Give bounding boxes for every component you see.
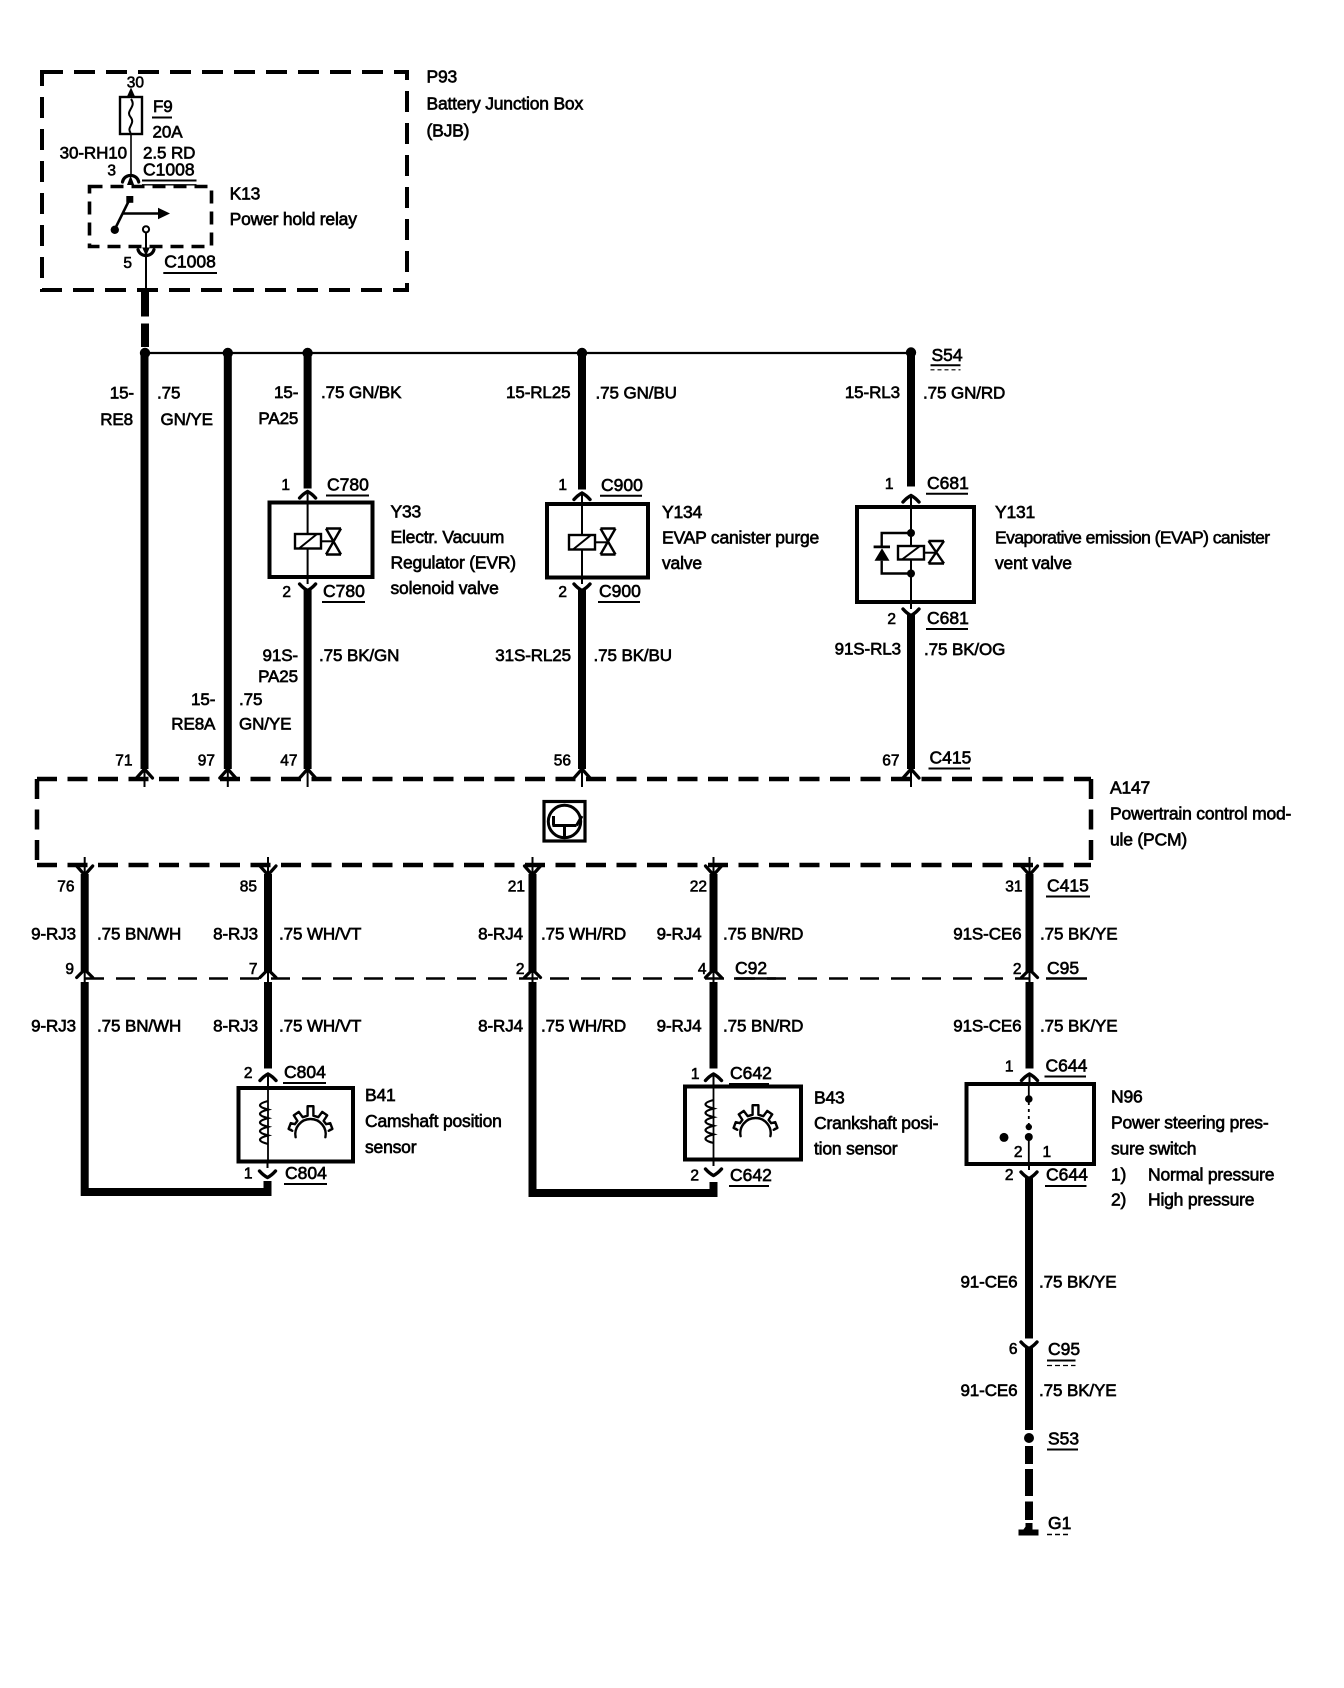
sensor B41 internal wire — [267, 1090, 269, 1160]
wire 9-RJ4 .75 BN/RD — [710, 874, 718, 971]
svg-text:6: 6 — [1009, 1341, 1018, 1358]
svg-text:21: 21 — [508, 879, 525, 896]
svg-text:B43: B43 — [814, 1088, 845, 1108]
svg-text:.75 BN/WH: .75 BN/WH — [97, 925, 181, 944]
svg-text:15-RL25: 15-RL25 — [506, 383, 571, 402]
svg-text:C780: C780 — [327, 475, 369, 495]
svg-text:5: 5 — [123, 255, 132, 272]
svg-text:K13: K13 — [230, 184, 261, 204]
svg-text:RE8A: RE8A — [171, 715, 216, 734]
junction node — [577, 348, 587, 358]
svg-text:15-RL3: 15-RL3 — [845, 383, 900, 402]
battery junction box P93 — [42, 72, 407, 290]
wire S53 to ground — [1025, 1446, 1033, 1464]
svg-text:EVAP canister purge: EVAP canister purge — [662, 528, 819, 548]
svg-text:Power hold relay: Power hold relay — [230, 209, 358, 229]
svg-text:.75 BK/YE: .75 BK/YE — [1039, 1381, 1117, 1400]
svg-text:Y33: Y33 — [391, 502, 422, 522]
wire fuse to relay — [130, 134, 132, 176]
svg-text:15-: 15- — [191, 690, 215, 709]
svg-text:valve: valve — [662, 553, 702, 573]
svg-text:C92: C92 — [735, 958, 767, 978]
wire 91S-RL3 .75 BK/OG — [907, 615, 915, 770]
svg-text:Powertrain control mod-: Powertrain control mod- — [1110, 804, 1292, 824]
svg-text:2: 2 — [282, 584, 291, 601]
svg-text:.75 GN/RD: .75 GN/RD — [923, 384, 1005, 403]
wire 9-RJ3 to B41 — [85, 982, 268, 1192]
svg-text:N96: N96 — [1111, 1087, 1143, 1107]
EVAP purge valve Y134 box — [547, 504, 648, 578]
svg-text:tion sensor: tion sensor — [814, 1139, 898, 1159]
svg-text:.75 BK/YE: .75 BK/YE — [1040, 925, 1118, 944]
svg-text:Y134: Y134 — [662, 502, 703, 522]
svg-text:Regulator (EVR): Regulator (EVR) — [391, 553, 516, 573]
splice S53 — [1024, 1433, 1034, 1443]
svg-text:.75 BK/YE: .75 BK/YE — [1039, 1273, 1117, 1292]
svg-text:9: 9 — [65, 961, 74, 978]
svg-text:.75 GN/BK: .75 GN/BK — [321, 383, 402, 402]
relay K13 box — [90, 187, 212, 247]
wire 15-RL3 .75 GN/RD — [907, 352, 915, 487]
svg-text:Camshaft position: Camshaft position — [365, 1111, 502, 1131]
svg-text:1: 1 — [691, 1066, 700, 1083]
svg-text:Electr. Vacuum: Electr. Vacuum — [391, 527, 505, 547]
svg-text:Power steering pres-: Power steering pres- — [1111, 1112, 1269, 1132]
svg-text:22: 22 — [690, 879, 707, 896]
svg-text:C415: C415 — [1047, 876, 1089, 896]
svg-text:2: 2 — [887, 611, 896, 628]
svg-text:85: 85 — [240, 879, 257, 896]
valve Y131 valve symbol — [929, 541, 945, 564]
sensor B43 gear icon — [734, 1105, 778, 1130]
wire 91S-CE6 .75 BK/YE — [1026, 874, 1034, 971]
valve Y33 internal wire — [307, 504, 309, 534]
svg-text:.75 BK/OG: .75 BK/OG — [924, 640, 1005, 659]
svg-text:C804: C804 — [285, 1163, 327, 1183]
junction node — [907, 529, 915, 537]
svg-text:.75 BN/WH: .75 BN/WH — [97, 1017, 181, 1036]
svg-text:Y131: Y131 — [995, 502, 1035, 522]
svg-text:S53: S53 — [1048, 1429, 1079, 1449]
inline connector line — [85, 977, 1030, 980]
svg-text:2: 2 — [690, 1168, 699, 1185]
svg-text:C95: C95 — [1048, 1339, 1080, 1359]
svg-text:91S-CE6: 91S-CE6 — [953, 925, 1021, 944]
valve Y134 coil — [569, 535, 595, 550]
EVAP vent valve Y131 box — [857, 507, 974, 602]
svg-text:31S-RL25: 31S-RL25 — [495, 646, 571, 665]
svg-text:solenoid valve: solenoid valve — [391, 578, 499, 598]
svg-text:C900: C900 — [601, 475, 643, 495]
svg-text:20A: 20A — [153, 123, 184, 142]
wire 8-RJ3 .75 WH/VT — [264, 874, 272, 971]
svg-text:.75 BK/BU: .75 BK/BU — [594, 646, 672, 665]
svg-text:.75 WH/RD: .75 WH/RD — [541, 1017, 626, 1036]
svg-text:97: 97 — [198, 753, 215, 770]
svg-text:C681: C681 — [927, 608, 969, 628]
svg-text:1: 1 — [244, 1166, 253, 1183]
svg-text:30-RH10: 30-RH10 — [60, 144, 127, 163]
svg-text:3: 3 — [107, 162, 116, 179]
svg-text:.75 BN/RD: .75 BN/RD — [723, 1017, 803, 1036]
svg-text:2: 2 — [244, 1065, 253, 1082]
svg-text:sensor: sensor — [365, 1137, 417, 1157]
svg-text:56: 56 — [554, 753, 571, 770]
svg-text:vent valve: vent valve — [995, 553, 1072, 573]
svg-text:67: 67 — [882, 753, 899, 770]
svg-text:Evaporative emission (EVAP) ca: Evaporative emission (EVAP) canister — [995, 528, 1270, 548]
svg-text:C1008: C1008 — [164, 252, 216, 272]
svg-text:Battery Junction Box: Battery Junction Box — [427, 94, 584, 114]
connector C642 pin 2 — [713, 1160, 715, 1167]
svg-text:71: 71 — [115, 753, 132, 770]
wire 15-RE8A .75 GN/YE — [224, 353, 232, 769]
crankshaft position sensor B43 box — [685, 1087, 801, 1160]
svg-text:91S-CE6: 91S-CE6 — [953, 1017, 1021, 1036]
svg-text:.75 GN/BU: .75 GN/BU — [596, 384, 677, 403]
svg-text:.75 WH/VT: .75 WH/VT — [279, 925, 361, 944]
connector C95 pin 6 — [1021, 1342, 1037, 1349]
junction node — [302, 348, 312, 358]
svg-text:RE8: RE8 — [100, 410, 133, 429]
svg-text:.75 BK/GN: .75 BK/GN — [319, 646, 399, 665]
svg-text:8-RJ3: 8-RJ3 — [213, 925, 258, 944]
svg-text:8-RJ3: 8-RJ3 — [213, 1017, 258, 1036]
svg-text:1: 1 — [1005, 1059, 1014, 1076]
wire 15-RE8 .75 GN/YE — [141, 353, 149, 769]
wire 91-CE6 .75 BK/YE — [1025, 1178, 1033, 1339]
connector C681 pin 2 — [910, 602, 912, 609]
valve Y33 link — [321, 540, 334, 542]
svg-text:.75 BK/YE: .75 BK/YE — [1040, 1017, 1118, 1036]
module icon — [544, 802, 585, 842]
svg-text:PA25: PA25 — [258, 409, 298, 428]
svg-text:.75: .75 — [157, 384, 180, 403]
camshaft position sensor B41 box — [239, 1088, 354, 1162]
svg-text:C804: C804 — [284, 1062, 326, 1082]
wire 8-RJ4 .75 WH/RD — [529, 874, 537, 971]
valve Y131 internal wire — [910, 508, 912, 533]
relay K13 switch — [126, 196, 133, 203]
connector C644 pin 2 — [1028, 1164, 1030, 1170]
sensor B43 internal wire — [713, 1088, 715, 1158]
svg-text:C415: C415 — [930, 748, 972, 768]
wire 8-RJ4 to B43 — [533, 982, 714, 1193]
junction node — [906, 347, 916, 357]
svg-text:31: 31 — [1005, 879, 1022, 896]
svg-text:C681: C681 — [927, 473, 969, 493]
svg-text:15-: 15- — [274, 383, 298, 402]
svg-text:1: 1 — [885, 476, 894, 493]
svg-text:91-CE6: 91-CE6 — [960, 1273, 1017, 1292]
svg-text:2: 2 — [1014, 1144, 1023, 1161]
svg-text:C644: C644 — [1046, 1165, 1088, 1185]
sensor B41 coil — [260, 1101, 268, 1144]
svg-text:15-: 15- — [110, 384, 134, 403]
svg-text:Normal pressure: Normal pressure — [1148, 1165, 1274, 1185]
valve Y134 valve symbol — [601, 529, 616, 555]
svg-text:9-RJ4: 9-RJ4 — [657, 1017, 702, 1036]
splice S54 bus wire — [145, 352, 911, 354]
solenoid valve Y33 box — [270, 503, 373, 578]
valve Y131 link — [924, 552, 936, 554]
ground G1 — [1026, 1523, 1033, 1531]
svg-text:8-RJ4: 8-RJ4 — [478, 925, 523, 944]
svg-text:.75 BN/RD: .75 BN/RD — [723, 925, 803, 944]
sensor B41 gear icon — [289, 1106, 333, 1131]
wire 91-CE6 .75 BK/YE lower — [1025, 1348, 1033, 1431]
wire 91S-CE6 to N96 pin 1 — [1026, 982, 1034, 1069]
svg-text:High pressure: High pressure — [1148, 1190, 1254, 1210]
svg-text:Crankshaft posi-: Crankshaft posi- — [814, 1113, 939, 1133]
svg-text:C642: C642 — [730, 1063, 772, 1083]
svg-text:1: 1 — [281, 477, 290, 494]
svg-text:91-CE6: 91-CE6 — [960, 1381, 1017, 1400]
wire 91S-PA25 .75 BK/GN — [304, 590, 312, 770]
svg-text:B41: B41 — [365, 1085, 396, 1105]
valve Y131 coil — [898, 546, 924, 560]
svg-text:A147: A147 — [1110, 778, 1150, 798]
svg-text:.75 WH/RD: .75 WH/RD — [541, 925, 626, 944]
junction node — [907, 570, 915, 578]
svg-text:C644: C644 — [1046, 1056, 1088, 1076]
wire relay to splice S54 — [145, 257, 147, 290]
svg-text:GN/YE: GN/YE — [161, 410, 213, 429]
power steering pressure switch N96 box — [967, 1084, 1095, 1164]
valve Y33 valve symbol — [326, 529, 341, 555]
connector C804 pin 1 — [267, 1162, 269, 1169]
connector C1008 pin 5 — [142, 248, 150, 257]
wire 8-RJ3 to B41 pin 2 — [264, 982, 272, 1069]
wire 15-PA25 .75 GN/BK — [304, 353, 312, 489]
junction node — [140, 348, 150, 358]
wire 9-RJ3 .75 BN/WH — [81, 874, 89, 971]
svg-text:9-RJ4: 9-RJ4 — [657, 925, 702, 944]
svg-text:2: 2 — [516, 961, 525, 978]
svg-text:1): 1) — [1111, 1165, 1126, 1185]
svg-text:C900: C900 — [599, 581, 641, 601]
svg-text:PA25: PA25 — [258, 667, 298, 686]
fuse F9 — [120, 97, 142, 134]
svg-text:91S-: 91S- — [262, 646, 298, 665]
svg-text:GN/YE: GN/YE — [239, 715, 291, 734]
svg-text:.75: .75 — [239, 690, 262, 709]
valve Y134 link — [595, 541, 608, 543]
svg-text:.75 WH/VT: .75 WH/VT — [279, 1017, 361, 1036]
svg-text:2): 2) — [1111, 1190, 1126, 1210]
diode Y131 — [882, 533, 911, 547]
svg-text:8-RJ4: 8-RJ4 — [478, 1017, 523, 1036]
svg-text:ule (PCM): ule (PCM) — [1110, 830, 1187, 850]
svg-text:C1008: C1008 — [143, 159, 195, 179]
valve Y33 coil — [295, 534, 321, 549]
svg-text:2: 2 — [558, 584, 567, 601]
valve Y134 internal wire — [581, 505, 583, 535]
svg-text:1: 1 — [1043, 1144, 1052, 1161]
svg-text:2: 2 — [1005, 1167, 1014, 1184]
powertrain control module A147 box — [37, 777, 1091, 782]
sensor B43 coil — [706, 1100, 714, 1143]
connector C780 pin 2 — [307, 577, 309, 584]
connector C900 pin 2 — [581, 578, 583, 585]
svg-text:P93: P93 — [427, 67, 458, 87]
svg-text:S54: S54 — [932, 345, 963, 365]
svg-text:91S-RL3: 91S-RL3 — [835, 640, 901, 659]
junction node — [223, 348, 233, 358]
svg-text:7: 7 — [249, 961, 258, 978]
svg-text:76: 76 — [57, 879, 74, 896]
svg-text:C642: C642 — [730, 1165, 772, 1185]
wire 15-RL25 .75 GN/BU — [578, 353, 586, 490]
svg-text:9-RJ3: 9-RJ3 — [31, 1017, 76, 1036]
wire 31S-RL25 .75 BK/BU — [578, 590, 586, 770]
svg-text:(BJB): (BJB) — [427, 121, 470, 141]
svg-text:sure switch: sure switch — [1111, 1139, 1196, 1159]
svg-text:G1: G1 — [1048, 1513, 1071, 1533]
svg-text:C95: C95 — [1047, 958, 1079, 978]
svg-text:F9: F9 — [153, 97, 173, 116]
svg-text:30: 30 — [127, 75, 145, 92]
svg-text:2: 2 — [1013, 961, 1022, 978]
switch N96 contacts — [1028, 1086, 1030, 1097]
svg-text:1: 1 — [558, 477, 567, 494]
svg-text:47: 47 — [280, 753, 297, 770]
wire 9-RJ4 to B43 pin 1 — [710, 982, 718, 1069]
svg-text:9-RJ3: 9-RJ3 — [31, 925, 76, 944]
svg-text:C780: C780 — [323, 581, 365, 601]
